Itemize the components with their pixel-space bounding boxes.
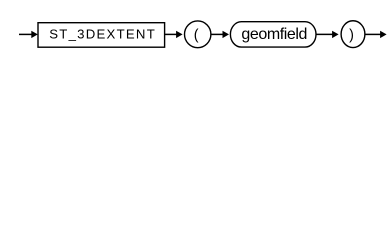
wire box to lparen xyxy=(165,31,183,38)
svg-text:(: ( xyxy=(194,28,199,44)
svg-text:ST_3DEXTENT: ST_3DEXTENT xyxy=(49,27,155,42)
wire geomfield to rparen xyxy=(316,31,339,38)
svg-text:): ) xyxy=(349,28,354,44)
wire entry xyxy=(19,31,38,38)
terminal lparen xyxy=(185,21,211,48)
box ST_3DEXTENT xyxy=(38,23,165,48)
background xyxy=(0,0,388,58)
wire lparen to geomfield xyxy=(211,31,229,38)
terminal rparen xyxy=(341,21,365,48)
svg-text:geomfield: geomfield xyxy=(241,26,307,43)
wire exit xyxy=(365,31,387,38)
oval geomfield xyxy=(230,22,316,47)
